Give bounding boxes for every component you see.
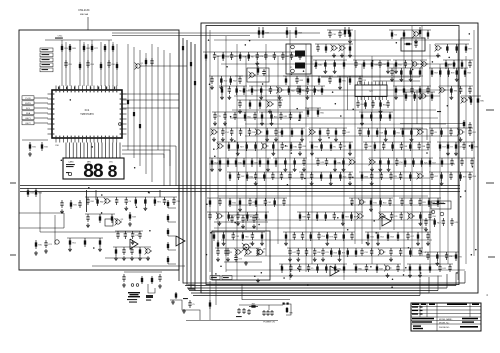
dark verticals below display: [86, 190, 88, 212]
title block header: [412, 304, 419, 305]
transistor Q77: [358, 214, 362, 218]
svg-text:R67: R67: [448, 64, 451, 66]
capacitor C46: [159, 274, 161, 277]
svg-text:R51: R51: [72, 242, 75, 244]
ground: [219, 167, 221, 169]
wire: [214, 227, 427, 229]
capacitor C28: [257, 248, 259, 251]
wire: [311, 56, 313, 264]
ground: [213, 137, 215, 139]
capacitor C50: [379, 60, 381, 63]
ground: [377, 241, 379, 243]
capacitor C36: [404, 60, 406, 63]
svg-text:R65: R65: [320, 112, 323, 114]
svg-text:R86: R86: [454, 90, 457, 92]
wire: [122, 99, 179, 101]
ground: [237, 151, 239, 153]
capacitor C94: [289, 248, 291, 251]
wire: [216, 55, 441, 57]
resistor R42: [301, 128, 303, 137]
capacitor C69: [411, 86, 413, 89]
resistor R29: [334, 60, 336, 69]
resistor R44: [363, 60, 365, 69]
wire: [246, 177, 430, 179]
resistor R83: [259, 100, 261, 109]
resistor R87: [393, 128, 395, 137]
svg-text:C85: C85: [236, 236, 239, 238]
ground: [271, 121, 273, 123]
svg-text:C18: C18: [252, 132, 255, 134]
ground: [333, 53, 335, 55]
resistor R21: [290, 142, 292, 151]
ground: [261, 121, 263, 123]
svg-text:C40: C40: [368, 146, 371, 148]
wire routing right of IC: [122, 145, 176, 147]
ground: [334, 167, 336, 169]
wire: [400, 123, 465, 125]
wire: [249, 85, 301, 87]
ground: [251, 241, 253, 243]
resistor R9: [355, 264, 357, 273]
capacitor C3: [228, 86, 230, 89]
resistor R90: [370, 112, 372, 121]
svg-text:R45: R45: [318, 64, 321, 66]
resistor R98: [251, 86, 253, 95]
wire: [214, 221, 268, 223]
svg-text:R85: R85: [480, 100, 483, 102]
svg-text:SW: SW: [289, 313, 292, 315]
wire: [305, 107, 321, 109]
svg-text:R17: R17: [458, 146, 461, 148]
ground: [297, 257, 299, 259]
ground: [334, 69, 336, 71]
ground: [339, 85, 341, 87]
speaker SP1: [128, 292, 140, 293]
svg-text:R15: R15: [239, 90, 242, 92]
ground: [314, 257, 316, 259]
transistor Q49: [262, 144, 266, 148]
wire: [112, 32, 320, 34]
op-amp U6: [176, 236, 185, 246]
svg-text:C47: C47: [292, 252, 295, 254]
resistor R69: [307, 76, 309, 85]
wire: [245, 56, 247, 230]
resistor R49: [320, 172, 322, 181]
ground: [322, 257, 324, 259]
capacitor C32: [214, 112, 216, 115]
wire: [337, 75, 363, 77]
svg-text:C41: C41: [442, 268, 445, 270]
resistor R97: [324, 60, 326, 69]
resistor R68: [410, 68, 412, 77]
svg-text:MUTE: MUTE: [25, 103, 31, 105]
capacitor C89: [232, 232, 234, 235]
wire: [215, 247, 261, 249]
resistor R89: [249, 306, 258, 308]
ground: [131, 256, 133, 258]
resistor R81: [370, 198, 372, 207]
ground: [342, 221, 344, 223]
wire: [124, 271, 162, 273]
ground: [436, 261, 438, 263]
svg-text:R71: R71: [254, 90, 257, 92]
wire: [203, 51, 303, 53]
capacitor C89: [380, 172, 382, 175]
resistor R41: [376, 128, 378, 137]
capacitor C4: [87, 197, 89, 200]
transistor Q1: [136, 64, 140, 68]
wire: [425, 251, 459, 253]
resistor R18: [436, 252, 438, 261]
ground: [371, 167, 373, 169]
transistor Q46: [440, 88, 444, 92]
capacitor C83: [263, 69, 265, 71]
resistor R73: [410, 128, 412, 137]
resistor R69: [448, 68, 450, 77]
capacitor C97: [365, 142, 367, 145]
wire: [259, 111, 303, 113]
wire: [209, 163, 455, 165]
resistor R54: [463, 120, 465, 128]
resistor R16: [439, 68, 441, 77]
svg-text:KEY2: KEY2: [25, 123, 31, 125]
wire: [234, 95, 440, 97]
svg-text:MODEL No. :: MODEL No. :: [439, 323, 451, 325]
wire: [104, 44, 106, 86]
svg-text:Q1: Q1: [141, 63, 144, 65]
resistor R54: [209, 198, 211, 207]
transistor Q21: [421, 94, 425, 98]
resistor R21: [262, 27, 264, 38]
ground: [395, 95, 397, 97]
capacitor C17: [79, 200, 81, 203]
resistor R39: [437, 198, 439, 207]
resistor R55: [291, 128, 293, 137]
resistor R36: [368, 128, 370, 137]
ground: [361, 121, 363, 123]
capacitor C7: [280, 112, 282, 115]
capacitor C86: [446, 252, 448, 255]
resistor R84: [259, 158, 261, 167]
wire: [65, 42, 67, 86]
resistor R27: [377, 232, 379, 241]
capacitor C39: [299, 264, 301, 267]
resistor R34: [35, 188, 37, 197]
capacitor C89: [396, 158, 398, 161]
ground: [284, 167, 286, 169]
resistor R32: [385, 128, 387, 137]
resistor R80: [343, 264, 345, 273]
ground: [237, 221, 239, 223]
wire: [219, 85, 247, 87]
svg-text:C68: C68: [302, 146, 305, 148]
resistor R14: [380, 198, 382, 207]
ground: [395, 69, 397, 71]
transistor Q6: [258, 250, 263, 255]
svg-text:R76: R76: [474, 146, 477, 148]
wire: [443, 59, 473, 61]
capacitor C39: [427, 86, 429, 89]
svg-text:R17: R17: [442, 146, 445, 148]
resistor R73: [321, 86, 323, 95]
ground: [380, 109, 382, 111]
ground: [125, 206, 127, 208]
right area extra verticals: [416, 90, 418, 124]
ground: [450, 95, 452, 97]
ground: [456, 77, 458, 79]
wire: [225, 36, 227, 272]
wire: [287, 247, 359, 249]
capacitor C10: [302, 232, 304, 235]
ground: [370, 207, 372, 209]
ground: [303, 167, 305, 169]
capacitor C21: [45, 240, 47, 243]
svg-text:R51: R51: [397, 132, 400, 134]
resistor R1: [409, 264, 411, 273]
small box: [105, 219, 113, 226]
wire: [435, 43, 469, 45]
wire: [273, 157, 307, 159]
capacitor C21: [449, 264, 451, 267]
resistor R48: [402, 128, 404, 137]
capacitor C84: [256, 52, 258, 55]
wire: [244, 219, 436, 221]
svg-text:R24: R24: [302, 90, 305, 92]
wire: [403, 30, 405, 272]
wire: [379, 211, 433, 213]
wire: [439, 85, 473, 87]
resistor R34: [213, 232, 215, 241]
wire: [309, 127, 347, 129]
capacitor C22: [237, 212, 239, 215]
right section outer frame: [201, 23, 478, 293]
svg-text:R69: R69: [72, 48, 75, 50]
ground: [335, 137, 337, 139]
resistor R67: [228, 142, 230, 151]
right section inner frame: [206, 26, 459, 285]
resistor R82: [405, 92, 407, 101]
wire: [67, 237, 103, 239]
resistor R57: [453, 60, 455, 69]
resistor R74: [334, 264, 336, 273]
svg-text:R53: R53: [334, 252, 337, 254]
ground: [289, 257, 291, 259]
resistor R79: [318, 76, 320, 85]
svg-text:C68: C68: [299, 80, 302, 82]
capacitor C28: [117, 231, 119, 234]
svg-text:R62: R62: [383, 104, 386, 106]
ground: [388, 167, 390, 169]
resistor R46: [349, 30, 351, 39]
resistor R94: [310, 232, 312, 241]
resistor R91: [221, 86, 223, 95]
svg-text:R43: R43: [265, 32, 268, 34]
resistor R73: [434, 218, 436, 227]
svg-text:C65: C65: [422, 202, 425, 204]
transistor Q90: [340, 46, 344, 50]
wire: [83, 42, 85, 86]
resistor R37: [477, 96, 479, 105]
svg-text:IC1: IC1: [85, 108, 90, 112]
capacitor C6: [429, 212, 431, 215]
ground: [224, 121, 226, 123]
op-amp U7: [130, 239, 138, 249]
ground: [132, 240, 134, 242]
ground: [391, 77, 393, 79]
capacitor C75: [238, 308, 240, 310]
capacitor C75: [234, 112, 236, 115]
wire: [353, 263, 401, 265]
wire: [214, 39, 470, 41]
resistor R8: [145, 58, 147, 66]
resistor R58: [355, 248, 357, 257]
boxed labels left of cluster: [40, 48, 53, 52]
svg-text:SDA: SDA: [26, 112, 31, 115]
transistor Q84: [218, 144, 222, 148]
capacitor C59: [264, 198, 266, 201]
wire: [283, 75, 333, 77]
capacitor C60: [390, 172, 392, 175]
resistor R25: [220, 76, 222, 85]
capacitor C32: [242, 215, 244, 218]
resistor R4: [229, 172, 231, 181]
transistor Q59: [418, 130, 422, 134]
ground: [260, 95, 262, 97]
capacitor C66: [372, 100, 374, 103]
capacitor C27: [297, 86, 299, 89]
resistor R61: [267, 158, 269, 167]
transistor Q8: [277, 88, 281, 92]
ground: [279, 95, 281, 97]
capacitor C87: [231, 128, 233, 131]
capacitor C95: [339, 30, 341, 33]
capacitor C31: [333, 212, 335, 215]
capacitor C6: [251, 232, 253, 235]
resistor R34: [374, 142, 376, 151]
resistor R25: [380, 112, 382, 121]
wire: [403, 91, 435, 93]
resistor R14: [365, 100, 367, 109]
resistor R58: [112, 44, 114, 52]
svg-text:R60: R60: [245, 236, 248, 238]
svg-text:C10: C10: [332, 34, 335, 36]
svg-text:R83: R83: [374, 64, 377, 66]
ground: [311, 181, 313, 183]
left section frame: [19, 30, 179, 270]
transistor Q77: [332, 46, 336, 50]
ground: [385, 137, 387, 139]
resistor R6: [431, 68, 433, 77]
capacitor C16: [297, 248, 299, 251]
transistor Q98: [246, 250, 250, 254]
capacitor C97: [299, 52, 301, 55]
resistor R98: [395, 86, 397, 95]
resistor R38: [239, 198, 241, 207]
resistor R42: [335, 128, 337, 137]
ground: [469, 95, 471, 97]
capacitor C7: [273, 52, 275, 55]
capacitor C39: [451, 158, 453, 161]
resistor R38: [348, 27, 350, 37]
capacitor C46: [271, 310, 273, 312]
wire: [305, 44, 307, 272]
ground: [99, 247, 101, 249]
ground: [341, 53, 343, 55]
capacitor C12: [293, 232, 295, 235]
ground: [35, 251, 37, 253]
capacitor C21: [108, 60, 110, 63]
ground: [45, 249, 47, 251]
svg-text:R91: R91: [317, 90, 320, 92]
capacitor C37: [269, 86, 271, 89]
capacitor C75: [419, 248, 421, 251]
junction dots: [373, 220, 375, 222]
capacitor C6: [254, 112, 256, 115]
ground: [239, 207, 241, 209]
ground: [159, 284, 161, 286]
crystal box: [401, 38, 425, 51]
resistor R34: [316, 264, 318, 273]
ground: [139, 256, 141, 258]
wire: [357, 127, 423, 129]
capacitor C86: [303, 158, 305, 161]
wire: [237, 99, 283, 101]
resistor R90: [286, 307, 288, 313]
transistor Q93: [418, 174, 422, 178]
power connector cluster: [239, 304, 283, 306]
transistor Q73: [310, 130, 314, 134]
transistor Q10: [414, 32, 418, 36]
wires lower left: [39, 192, 41, 232]
capacitor C28: [87, 214, 89, 217]
ground: [419, 221, 421, 223]
capacitor C74: [253, 215, 255, 218]
svg-text:C14: C14: [225, 132, 228, 134]
capacitor C28: [351, 232, 353, 235]
capacitor C5: [308, 212, 310, 215]
ground: [417, 241, 419, 243]
resistor R26: [299, 86, 301, 95]
resistor R18: [307, 108, 309, 117]
svg-text:R67: R67: [252, 304, 255, 306]
ground: [290, 273, 292, 275]
ground: [144, 206, 146, 208]
wire: [217, 141, 303, 143]
wire: [45, 39, 112, 41]
resistor R40: [311, 142, 313, 151]
resistor R57: [219, 158, 221, 167]
capacitor C34: [349, 172, 351, 175]
capacitor C45: [214, 52, 216, 55]
wire: [217, 56, 219, 244]
resistor R46: [361, 112, 363, 121]
capacitor C71: [131, 247, 133, 250]
capacitor C25: [306, 86, 308, 89]
resistor R21: [455, 252, 457, 261]
capacitor C11: [116, 197, 118, 200]
ground: [339, 257, 341, 259]
svg-text:MECHA: MECHA: [80, 13, 88, 16]
ground: [272, 151, 274, 153]
resistor R38: [135, 197, 137, 206]
wire: [61, 40, 63, 86]
wire: [297, 85, 325, 87]
capacitor C6: [123, 274, 125, 277]
svg-text:R91: R91: [157, 201, 160, 203]
svg-text:TMP47C870: TMP47C870: [80, 113, 94, 116]
svg-text:C31: C31: [364, 252, 367, 254]
resistor R75: [350, 212, 352, 221]
